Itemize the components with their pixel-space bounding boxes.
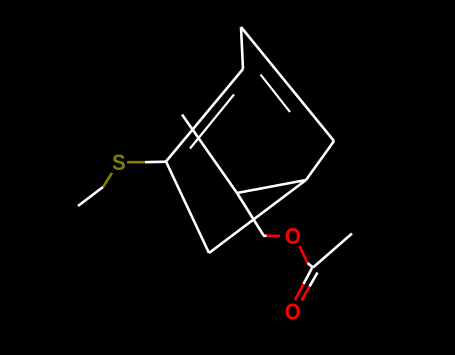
bond B3-O1 white half <box>263 235 267 238</box>
wire S-CH3 olive half <box>103 173 112 187</box>
carbonyl C4=O2 line 2 white upper <box>310 273 318 287</box>
wire S-A white half <box>145 160 166 163</box>
bond R2-B1 <box>209 180 306 253</box>
carbonyl C4=O2 line 1 red lower <box>295 284 304 300</box>
carbonyl C4=O2 line 2 red lower <box>302 287 310 301</box>
svg-text:O: O <box>285 223 301 250</box>
wire C4-CH3 acetate methyl <box>313 234 352 268</box>
bond B3-O1 red stub <box>267 235 281 238</box>
wire S-A olive half <box>127 161 145 164</box>
bond R-R2 <box>306 141 334 180</box>
bond A=V1 main line <box>166 69 243 162</box>
wire O1-C4 white part <box>308 263 314 268</box>
bond B2-B3 <box>237 193 264 235</box>
bond A=V1 inner double-bond line <box>190 95 234 149</box>
wire S-CH3 white half <box>78 187 103 206</box>
svg-text:O: O <box>285 298 301 325</box>
bond T=R inner double-bond line <box>261 75 291 113</box>
svg-text:S: S <box>112 151 125 175</box>
bond B1-A <box>166 162 209 254</box>
wire O1-C4 red part <box>300 246 308 263</box>
bond T=R main line <box>241 27 334 141</box>
bond B2-U bridge <box>182 115 237 194</box>
bond V1-T <box>241 27 243 69</box>
carbonyl C4=O2 line 1 white upper <box>304 268 313 284</box>
bond R2-B2 <box>237 180 306 193</box>
